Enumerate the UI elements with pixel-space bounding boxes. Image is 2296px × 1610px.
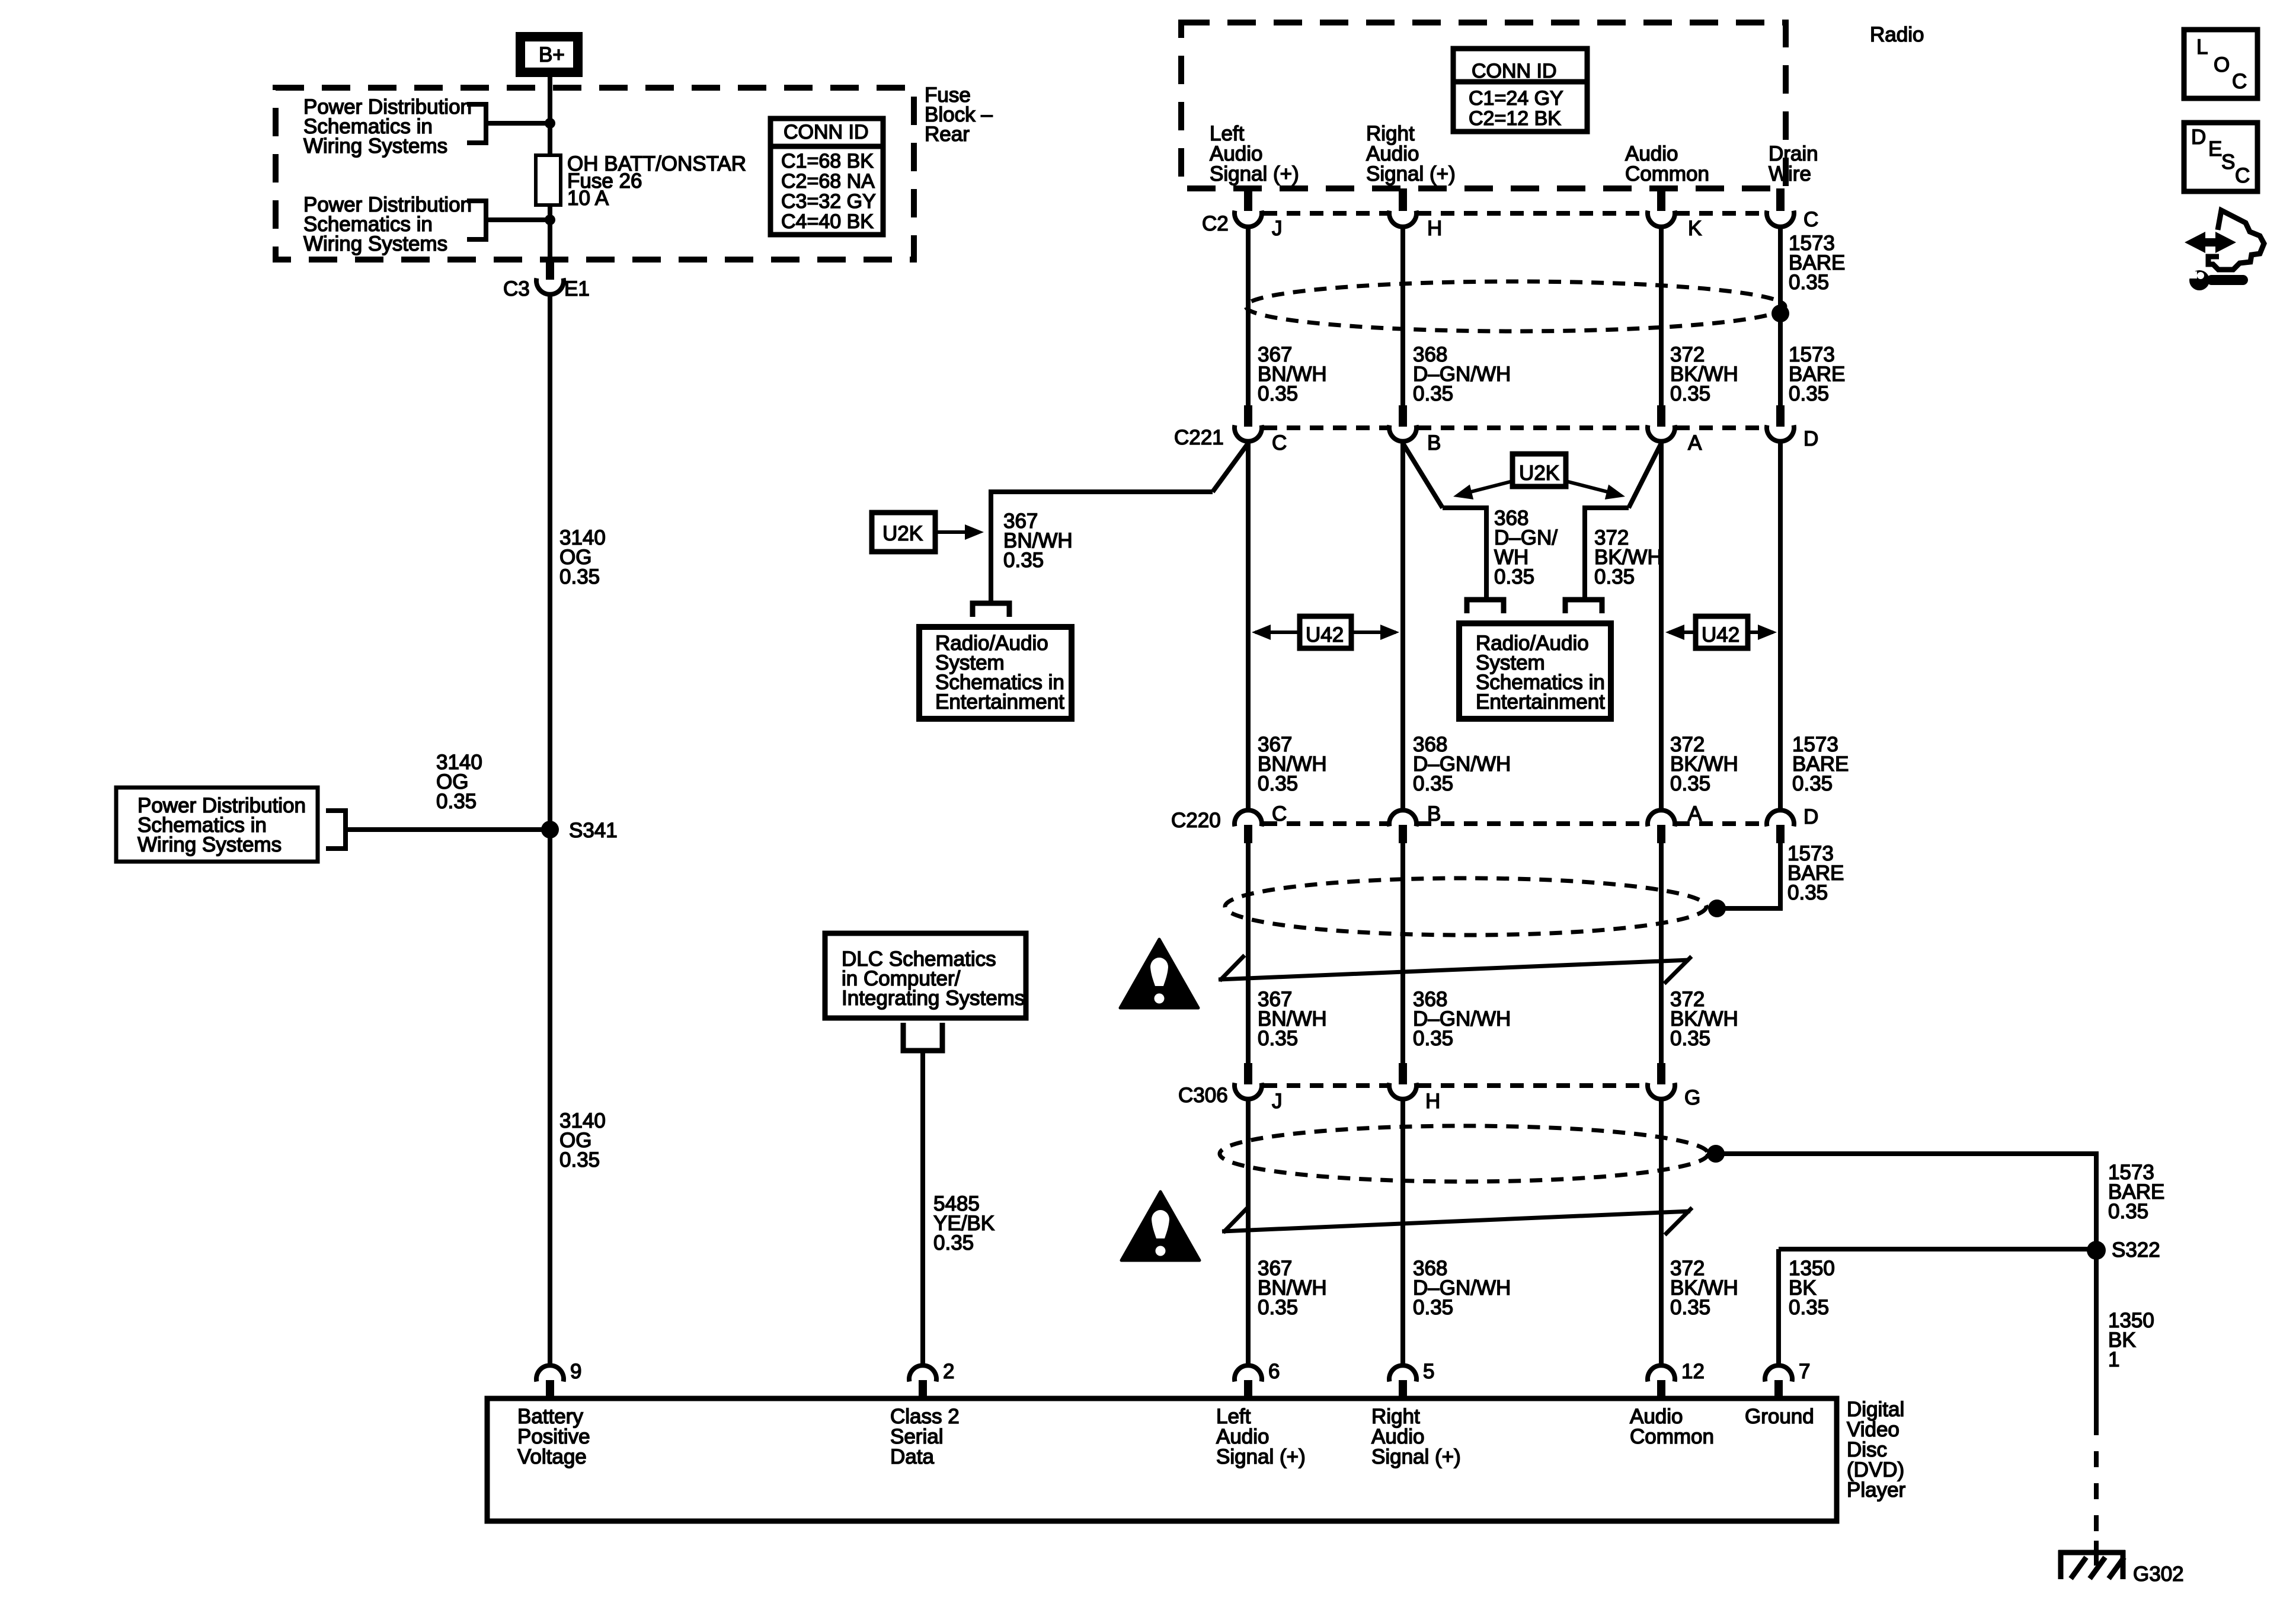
- svg-text:G302: G302: [2133, 1563, 2184, 1586]
- svg-text:J: J: [1272, 217, 1283, 240]
- svg-text:A: A: [1688, 431, 1702, 454]
- svg-text:U42: U42: [1306, 623, 1344, 646]
- svg-text:0.35: 0.35: [1670, 382, 1710, 405]
- svg-text:Wire: Wire: [1769, 162, 1811, 185]
- svg-text:Wiring Systems: Wiring Systems: [303, 135, 447, 158]
- svg-text:B: B: [1427, 802, 1441, 825]
- svg-text:Common: Common: [1630, 1425, 1714, 1448]
- svg-text:Common: Common: [1625, 162, 1709, 185]
- svg-text:E1: E1: [564, 277, 590, 300]
- svg-text:U42: U42: [1702, 623, 1739, 646]
- svg-text:0.35: 0.35: [1413, 772, 1453, 795]
- svg-text:0.35: 0.35: [1789, 271, 1829, 294]
- svg-text:O: O: [2214, 53, 2230, 76]
- svg-text:Signal (+): Signal (+): [1371, 1445, 1461, 1468]
- svg-text:0.35: 0.35: [1594, 565, 1635, 588]
- svg-text:12: 12: [1681, 1360, 1705, 1383]
- svg-text:G: G: [1684, 1086, 1700, 1109]
- svg-text:Entertainment: Entertainment: [1476, 690, 1605, 713]
- svg-text:0.35: 0.35: [1670, 772, 1710, 795]
- svg-text:B+: B+: [539, 43, 565, 66]
- svg-text:7: 7: [1799, 1360, 1810, 1383]
- svg-text:C2: C2: [1202, 212, 1229, 235]
- svg-text:Data: Data: [890, 1445, 934, 1468]
- svg-text:H: H: [1427, 217, 1442, 240]
- svg-text:0.35: 0.35: [1789, 382, 1829, 405]
- svg-text:S341: S341: [569, 819, 618, 842]
- svg-text:0.35: 0.35: [1413, 382, 1453, 405]
- svg-text:C: C: [1272, 802, 1287, 825]
- svg-text:D: D: [2191, 126, 2206, 149]
- svg-text:5: 5: [1423, 1360, 1434, 1383]
- svg-text:Entertainment: Entertainment: [935, 690, 1064, 713]
- svg-text:0.35: 0.35: [1258, 1296, 1298, 1319]
- svg-text:Wiring Systems: Wiring Systems: [137, 833, 282, 856]
- svg-text:0.35: 0.35: [1258, 382, 1298, 405]
- svg-text:0.35: 0.35: [1258, 1027, 1298, 1050]
- svg-text:0.35: 0.35: [1787, 881, 1828, 904]
- svg-text:0.35: 0.35: [1413, 1296, 1453, 1319]
- svg-text:10 A: 10 A: [567, 187, 609, 210]
- svg-text:9: 9: [570, 1360, 581, 1383]
- svg-text:S: S: [2221, 151, 2235, 174]
- svg-text:C3: C3: [503, 277, 530, 300]
- svg-text:C1=68 BK: C1=68 BK: [781, 150, 874, 172]
- svg-text:D: D: [1803, 427, 1818, 450]
- svg-text:C2=12 BK: C2=12 BK: [1469, 107, 1561, 130]
- svg-text:Integrating Systems: Integrating Systems: [842, 987, 1025, 1010]
- svg-text:0.35: 0.35: [1003, 549, 1044, 572]
- svg-text:0.35: 0.35: [559, 565, 600, 588]
- svg-text:Wiring Systems: Wiring Systems: [303, 232, 447, 255]
- svg-text:C: C: [2232, 70, 2247, 93]
- svg-text:Signal (+): Signal (+): [1216, 1445, 1306, 1468]
- svg-text:C4=40 BK: C4=40 BK: [781, 210, 874, 233]
- svg-text:0.35: 0.35: [1792, 772, 1833, 795]
- svg-text:C: C: [1272, 431, 1287, 454]
- svg-text:C221: C221: [1174, 426, 1224, 449]
- svg-text:0.35: 0.35: [436, 790, 477, 813]
- svg-text:0.35: 0.35: [1670, 1296, 1710, 1319]
- svg-text:U2K: U2K: [882, 522, 923, 545]
- svg-text:U2K: U2K: [1519, 462, 1559, 485]
- svg-text:C: C: [1803, 208, 1818, 231]
- svg-text:Player: Player: [1847, 1478, 1906, 1502]
- svg-text:E: E: [2208, 137, 2222, 161]
- svg-text:C: C: [2235, 164, 2250, 187]
- svg-text:0.35: 0.35: [1258, 772, 1298, 795]
- svg-text:Radio: Radio: [1870, 23, 1924, 46]
- svg-text:A: A: [1688, 802, 1702, 825]
- svg-text:S322: S322: [2112, 1238, 2160, 1262]
- svg-text:D: D: [1803, 805, 1818, 828]
- svg-text:1: 1: [2108, 1348, 2119, 1371]
- svg-text:Rear: Rear: [925, 123, 970, 146]
- svg-text:C1=24 GY: C1=24 GY: [1469, 87, 1563, 110]
- svg-text:CONN ID: CONN ID: [1472, 60, 1557, 82]
- svg-text:2: 2: [943, 1360, 954, 1383]
- svg-text:Ground: Ground: [1745, 1405, 1814, 1428]
- svg-text:0.35: 0.35: [933, 1231, 974, 1254]
- svg-text:0.35: 0.35: [1413, 1027, 1453, 1050]
- svg-text:L: L: [2196, 36, 2208, 59]
- svg-text:0.35: 0.35: [1670, 1027, 1710, 1050]
- svg-text:Signal (+): Signal (+): [1210, 162, 1299, 185]
- svg-text:B: B: [1427, 431, 1441, 454]
- svg-text:C3=32 GY: C3=32 GY: [781, 190, 876, 213]
- svg-text:6: 6: [1268, 1360, 1280, 1383]
- svg-text:CONN ID: CONN ID: [784, 121, 869, 143]
- svg-text:H: H: [1425, 1090, 1440, 1113]
- svg-text:Signal (+): Signal (+): [1366, 162, 1456, 185]
- svg-text:0.35: 0.35: [1494, 565, 1534, 588]
- svg-text:Voltage: Voltage: [517, 1445, 587, 1468]
- svg-text:0.35: 0.35: [2108, 1200, 2148, 1223]
- svg-text:0.35: 0.35: [1789, 1296, 1829, 1319]
- svg-text:C306: C306: [1178, 1084, 1228, 1107]
- svg-text:C220: C220: [1171, 809, 1221, 832]
- svg-text:0.35: 0.35: [559, 1148, 600, 1172]
- svg-text:K: K: [1688, 217, 1702, 240]
- svg-text:C2=68 NA: C2=68 NA: [781, 170, 875, 193]
- svg-text:J: J: [1272, 1090, 1283, 1113]
